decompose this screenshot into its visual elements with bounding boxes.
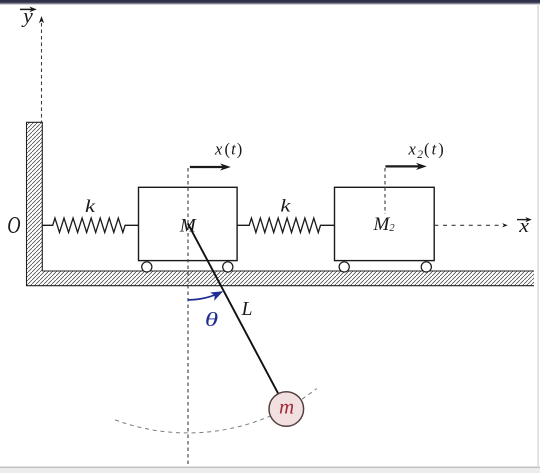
y-axis dashed line [41, 23, 43, 122]
svg-text:(t): (t) [225, 139, 244, 158]
mass M box [139, 187, 238, 260]
y-axis arrowhead [39, 16, 44, 23]
wheel M2 left [339, 262, 349, 272]
svg-text:O: O [7, 211, 21, 238]
right edge light line [537, 4, 539, 467]
x(t) arrow [190, 163, 231, 170]
label k (left spring) [85, 197, 96, 216]
mass M2 box [335, 187, 435, 260]
label k (right spring) [280, 196, 291, 215]
label O origin [7, 211, 21, 238]
top dark navy bar [0, 0, 540, 3]
blue angle arc theta [188, 292, 222, 300]
pendulum rod L [188, 223, 278, 393]
svg-text:L: L [241, 299, 253, 320]
svg-text:k: k [280, 196, 291, 215]
spring k2 (M to M2) [237, 218, 334, 232]
pendulum bob m [269, 392, 304, 427]
x-axis dashed line [434, 224, 501, 226]
dashed vertical line through M [187, 168, 189, 467]
svg-text:M: M [179, 215, 197, 236]
svg-text:m: m [279, 394, 294, 418]
dashed vertical line through M2 [384, 168, 386, 214]
label theta [205, 309, 219, 331]
svg-text:2: 2 [417, 149, 423, 161]
x-axis arrowhead [502, 223, 508, 227]
label vec x [517, 216, 532, 236]
svg-text:θ: θ [205, 309, 219, 331]
wheel M left [142, 262, 152, 272]
bottom light strip [0, 468, 540, 473]
dashed swing arc [115, 389, 317, 433]
x2(t) arrow [385, 163, 426, 170]
wall outline [27, 122, 535, 285]
svg-text:x: x [408, 140, 417, 159]
svg-text:k: k [85, 197, 96, 216]
wall and floor hatched L-shape [27, 122, 535, 285]
spring k1 (wall to M) [42, 218, 139, 232]
svg-text:(t): (t) [424, 140, 446, 159]
bottom gray separator line [0, 467, 540, 469]
wheel M right [223, 262, 233, 272]
wheel M2 right [421, 262, 431, 272]
label vec y [20, 4, 37, 27]
svg-text:x: x [214, 139, 223, 158]
